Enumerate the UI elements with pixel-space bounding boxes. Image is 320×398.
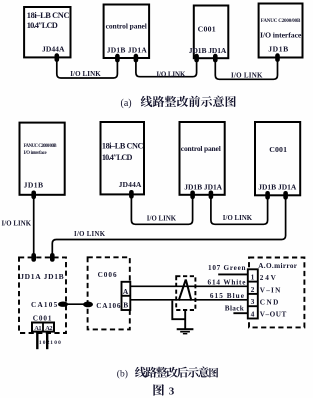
terminal block A / B	[122, 282, 131, 310]
connector JD44A plug	[129, 190, 134, 199]
unit FANUC C2000/00B I/O interface (box)	[259, 4, 303, 58]
svg-text:18i–LB CNC: 18i–LB CNC	[27, 11, 70, 20]
connector JD1A plug on dashed box	[31, 253, 36, 262]
svg-text:B: B	[123, 301, 128, 310]
svg-text:(a): (a)	[121, 98, 132, 109]
terminal block A1 A2	[32, 323, 54, 332]
svg-text:I/O LINK: I/O LINK	[231, 72, 263, 80]
wire control-panel JD1A to C001 JD1B	[136, 62, 197, 77]
wire shield drain	[184, 310, 186, 329]
connector JD1B plug	[31, 191, 36, 200]
ground symbol	[177, 328, 194, 330]
power pigtail 102	[36, 332, 38, 350]
wire C001 JD1A down-left to I/O-unit JD1B	[52, 199, 285, 255]
svg-text:I/O LINK: I/O LINK	[74, 231, 106, 238]
unit C001 (box)	[194, 6, 229, 59]
connector JD44A plug	[55, 53, 60, 62]
connector JD1B plug	[194, 54, 199, 63]
svg-text:24V: 24V	[260, 274, 277, 282]
svg-text:Black: Black	[225, 305, 244, 313]
svg-text:control panel: control panel	[106, 22, 147, 31]
caption figure 3	[153, 384, 164, 396]
svg-text:JD1B: JD1B	[24, 181, 43, 190]
svg-text:I/O interface: I/O interface	[24, 151, 47, 156]
unit C001 (box)	[255, 122, 300, 195]
svg-text:JD1B JD1A: JD1B JD1A	[107, 46, 148, 55]
wire CA105 to CA106	[63, 303, 89, 305]
svg-text:I/O LINK: I/O LINK	[147, 216, 177, 223]
I/O unit dashed enclosure	[19, 257, 66, 333]
svg-text:CND: CND	[260, 299, 279, 307]
svg-text:107 Green: 107 Green	[208, 264, 246, 272]
svg-text:JD1B JD1A: JD1B JD1A	[184, 182, 222, 191]
svg-text:CA106: CA106	[96, 302, 121, 310]
unit control panel (box)	[104, 5, 150, 59]
wire 107 Green stub to pin 1	[218, 273, 248, 275]
connector JD1A plug	[283, 191, 288, 200]
svg-text:10.4″LCD: 10.4″LCD	[102, 153, 133, 162]
svg-text:C001: C001	[269, 145, 287, 154]
svg-text:100: 100	[50, 340, 61, 346]
svg-text:4: 4	[251, 310, 255, 319]
svg-text:I/O LINK: I/O LINK	[156, 70, 186, 78]
svg-text:18i–LB CNC: 18i–LB CNC	[102, 142, 144, 151]
terminal CA105 bullet	[58, 302, 68, 307]
svg-text:2: 2	[251, 285, 255, 294]
svg-text:A: A	[123, 287, 129, 296]
wire JD44A to control-panel JD1B	[57, 61, 118, 78]
svg-text:I/O LINK: I/O LINK	[223, 215, 253, 222]
svg-text:10.4″LCD: 10.4″LCD	[27, 21, 58, 30]
connector JD1B plug	[115, 54, 120, 63]
svg-text:615 Blue: 615 Blue	[210, 292, 244, 300]
connector JD1B plug on dashed box	[50, 253, 55, 262]
wire 615 Blue : terminal B to pin 3	[130, 299, 248, 301]
power pigtail 100	[46, 332, 48, 350]
twist symbol	[179, 280, 192, 301]
svg-text:3: 3	[251, 297, 255, 306]
svg-text:JD1B JD1A: JD1B JD1A	[258, 182, 297, 191]
wire Black stub to pin 4	[233, 312, 248, 314]
svg-text:C001: C001	[33, 314, 52, 322]
wire 614 White : terminal A to pin 2	[130, 285, 248, 287]
svg-text:I/O interface: I/O interface	[260, 31, 302, 40]
connector JD1B plug	[265, 191, 270, 200]
connector JD1B plug	[275, 53, 280, 62]
connector pin strip 1-4	[248, 269, 258, 318]
svg-text:JD44A: JD44A	[119, 180, 142, 189]
svg-text:V–IN: V–IN	[260, 286, 281, 294]
svg-text:C001: C001	[198, 25, 216, 34]
wire blue to shield ground	[172, 301, 185, 320]
svg-text:control panel: control panel	[181, 144, 221, 153]
wire control-panel JD1A to C001 JD1B	[211, 198, 268, 224]
svg-text:FANUC C2000/00B: FANUC C2000/00B	[24, 144, 58, 149]
svg-text:A2: A2	[45, 325, 52, 332]
svg-text:1: 1	[251, 273, 255, 282]
connector JD1A plug	[209, 191, 214, 200]
svg-text:A.O.mirror: A.O.mirror	[258, 262, 298, 270]
svg-text:FANUC C2000/00B: FANUC C2000/00B	[261, 19, 301, 24]
svg-text:C006: C006	[98, 271, 117, 279]
C006 dashed enclosure	[88, 257, 130, 329]
svg-text:I/O LINK: I/O LINK	[2, 220, 32, 227]
terminal CA106 bullet	[83, 302, 93, 308]
A.O.mirror dashed enclosure	[249, 258, 304, 328]
svg-text:JD1A JD1B: JD1A JD1B	[20, 272, 64, 281]
svg-text:CA105: CA105	[31, 301, 58, 309]
wire JD44A to control-panel JD1B	[131, 198, 192, 225]
shield (twisted pair) dashed box	[176, 276, 195, 310]
svg-text:JD1B: JD1B	[268, 45, 288, 54]
svg-text:3: 3	[169, 385, 175, 397]
unit 18i-LB CNC (box)	[24, 7, 70, 57]
svg-text:V–OUT: V–OUT	[260, 310, 287, 318]
svg-text:614 White: 614 White	[208, 278, 246, 286]
svg-text:JD44A: JD44A	[42, 44, 65, 53]
connector JD1B plug	[190, 191, 195, 200]
wire C001 JD1A to I/O-interface JD1B	[215, 61, 277, 79]
svg-text:I/O LINK: I/O LINK	[70, 70, 101, 78]
svg-text:(b): (b)	[117, 369, 128, 380]
unit control panel (box)	[180, 122, 225, 195]
wire I/O-interface JD1B down to I/O-unit JD1A	[33, 198, 35, 254]
svg-text:JD1B JD1A: JD1B JD1A	[189, 46, 227, 55]
unit 18i-LB CNC (box)	[101, 122, 145, 194]
svg-text:A1: A1	[34, 325, 41, 332]
unit FANUC C2000/00B I/O interface (box)	[20, 123, 65, 195]
connector JD1A plug	[213, 54, 218, 63]
connector JD1A plug	[134, 54, 139, 63]
